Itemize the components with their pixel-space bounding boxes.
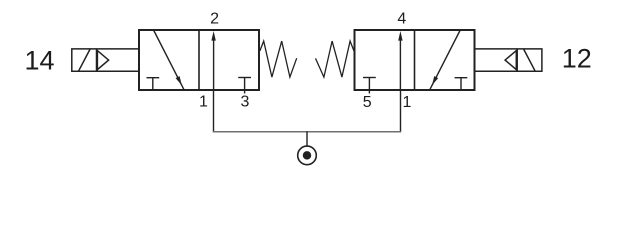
left valve rest-state blocked port T (3) [238,78,251,90]
port 5 stub [368,90,370,94]
divider right valve [414,30,416,90]
pilot triangle (left) [97,51,108,70]
right valve rest-state blocked port T (5) [363,78,376,90]
left valve actuated-state blocked port T (1) [147,78,160,90]
right valve actuated-state blocked port T (1) [455,78,468,90]
divider left valve [198,30,200,90]
valve body left (3/2 valve) [139,30,259,90]
svg-text:2: 2 [210,11,219,28]
wire: supply stub [306,131,308,146]
pressure source symbol [298,146,317,165]
wire: manifold horizontal [213,131,401,133]
return spring right valve [316,41,355,77]
svg-text:1: 1 [199,94,208,111]
svg-text:4: 4 [397,11,406,28]
svg-text:3: 3 [241,94,250,111]
left valve rest-state flow arrow (1->2) [211,31,215,90]
left valve actuated-state diagonal arrow (2->3) [154,31,184,90]
wire: port 1 left valve down [213,90,215,132]
right valve actuated-state diagonal arrow (4->5 mirrored) [430,31,460,90]
valve body right (3/2 valve) [355,30,475,90]
right valve rest-state flow arrow (1->4) [398,31,402,90]
svg-text:5: 5 [363,94,372,111]
svg-text:1: 1 [403,94,412,111]
wire: port 1 right valve down [400,90,402,132]
svg-text:14: 14 [24,46,54,76]
solenoid coil Y12 (right pilot) [475,49,542,71]
return spring left valve [260,41,297,77]
port 3 stub [244,90,246,94]
pilot triangle (right) [505,51,516,70]
solenoid coil Y14 (left pilot) [72,49,139,71]
svg-text:12: 12 [562,44,592,74]
